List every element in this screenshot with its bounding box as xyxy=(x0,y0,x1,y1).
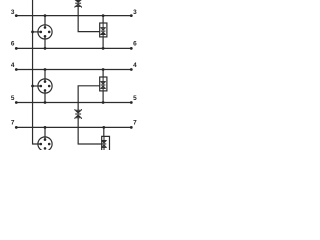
suppressor diode inside box U2 xyxy=(100,77,105,91)
junction riser/line3 xyxy=(44,14,47,17)
wire G2 bottom to line 5 xyxy=(44,90,46,102)
svg-text:5: 5 xyxy=(11,95,15,102)
wire line 5 xyxy=(16,102,131,104)
terminal dot 6 right xyxy=(130,47,133,50)
terminal dot 6 left xyxy=(15,47,18,50)
junction U1 riser/line3 xyxy=(102,14,105,17)
wire line 7 xyxy=(16,126,131,128)
wire riser line7 to box U3 xyxy=(103,127,105,136)
suppressor diode V2 (bidirectional) xyxy=(75,109,82,119)
junction U3 riser/line7 xyxy=(102,126,105,129)
terminal dot 3 left xyxy=(15,14,18,17)
wire riser line7 to G3 top xyxy=(44,127,46,139)
gas discharge tube G2 xyxy=(38,79,52,93)
junction riser/line5 xyxy=(44,101,47,104)
terminal dot 7 left xyxy=(15,126,18,129)
svg-text:4: 4 xyxy=(133,62,137,69)
suppressor diode inside box U1 xyxy=(100,23,105,37)
wire box U2 to line 5 xyxy=(102,91,104,103)
wire line 6 xyxy=(16,47,131,49)
terminal dot 4 left xyxy=(15,68,18,71)
svg-text:4: 4 xyxy=(11,62,15,69)
terminal dot 4 right xyxy=(130,68,133,71)
wire stub bus to G2 left electrode xyxy=(33,85,42,87)
box of protection element U3 (cut at bottom edge) xyxy=(102,136,110,150)
svg-text:3: 3 xyxy=(11,9,15,16)
gas discharge tube G3 (cut at bottom edge) xyxy=(38,137,52,151)
wire riser line4 to G2 top xyxy=(44,70,46,82)
wire riser line3 to box U1 xyxy=(102,16,104,23)
ground bus (left vertical wire, cut at top edge) xyxy=(33,0,42,144)
svg-text:3: 3 xyxy=(133,9,137,16)
suppressor diode inside box U3 xyxy=(101,136,106,150)
box of protection element U2 xyxy=(100,77,107,91)
wire box U1 to line 6 xyxy=(102,37,104,49)
electrode dots of G3 xyxy=(40,138,51,149)
electrode dots of G1 xyxy=(40,26,51,37)
box of protection element U1 xyxy=(100,23,107,37)
wire suppressor V2 lead down across line7 and tap into box U3 xyxy=(78,118,102,144)
terminal dot 3 right xyxy=(130,14,133,17)
wire line 3 xyxy=(16,15,131,17)
wire riser line3 to G1 top xyxy=(44,16,46,28)
svg-text:6: 6 xyxy=(11,41,15,48)
gas discharge tube G1 xyxy=(38,25,52,39)
junction riser/line4 xyxy=(44,68,47,71)
suppressor diode V1 (bidirectional, cut at top edge) xyxy=(75,0,82,8)
svg-text:7: 7 xyxy=(11,120,15,127)
junction bus/G1 electrode xyxy=(31,31,34,34)
electrode dots of G2 xyxy=(40,80,51,91)
svg-text:5: 5 xyxy=(133,95,137,102)
terminal dot 5 right xyxy=(130,101,133,104)
wire line 4 xyxy=(16,69,131,71)
terminal dot 5 left xyxy=(15,101,18,104)
junction riser/line7 xyxy=(44,126,47,129)
wire riser line4 to box U2 xyxy=(102,70,104,78)
svg-text:6: 6 xyxy=(133,41,137,48)
wire suppressor V1 lead down across line3 and tap into box U1 xyxy=(78,6,100,31)
junction U1 riser/line6 xyxy=(102,47,105,50)
junction U2 riser/line4 xyxy=(102,68,105,71)
wire box U2 tap left then down to suppressor V2 xyxy=(78,86,100,111)
wire G1 bottom to line 6 xyxy=(44,36,46,48)
junction riser/line6 xyxy=(44,47,47,50)
junction U2 riser/line5 xyxy=(102,101,105,104)
terminal dot 7 right xyxy=(130,126,133,129)
wire stub bus to G1 left electrode xyxy=(33,31,42,33)
svg-text:7: 7 xyxy=(133,120,137,127)
junction bus/G2 electrode xyxy=(31,85,34,88)
